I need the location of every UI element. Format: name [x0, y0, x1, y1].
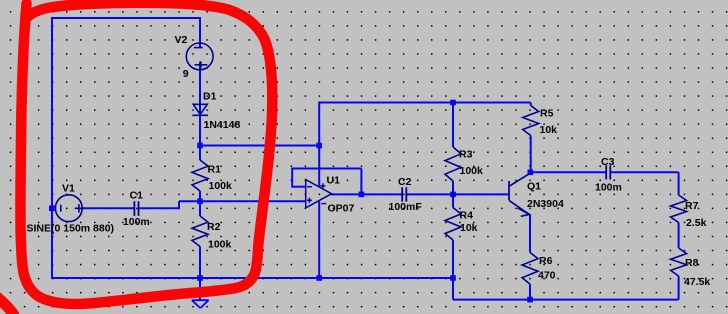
wire Q1 emitter to R6: [529, 215, 531, 253]
svg-text:R7: R7: [685, 200, 699, 212]
node junction J9: [450, 100, 456, 106]
svg-text:100m: 100m: [123, 216, 150, 228]
node junction J4 V1 left pin: [49, 206, 55, 212]
node junction J2: [197, 199, 203, 205]
resistor R8: [671, 248, 687, 276]
wire V2 bottom to D1 to R1 top: [199, 62, 201, 160]
svg-text:100k: 100k: [460, 165, 484, 177]
resistor R6: [522, 252, 538, 284]
node junction J12: [316, 275, 322, 281]
wire lower right rail y=299.6: [453, 299, 679, 301]
capacitor C1: [134, 201, 138, 216]
wire V2 top pin: [199, 18, 201, 48]
svg-text:V2: V2: [175, 34, 188, 46]
wire right vertical to R7: [678, 172, 680, 195]
resistor R3: [445, 147, 461, 181]
svg-text:470: 470: [538, 270, 556, 282]
node junction J7: [450, 192, 456, 198]
wire opamp V- riser x=319.2: [318, 201, 320, 279]
wire C1 to jog: [139, 207, 180, 209]
wire R6 bottom to J11: [529, 284, 531, 300]
svg-text:R8: R8: [685, 257, 699, 269]
wire C2 to J7: [406, 193, 453, 195]
svg-text:9: 9: [183, 68, 189, 80]
red marker corner stroke bottom-left: [0, 297, 14, 314]
svg-text:R1: R1: [208, 164, 222, 176]
wire feedback right vertical x=361.4: [360, 169, 362, 195]
svg-text:V1: V1: [62, 183, 75, 195]
red marker annotation loop: [20, 3, 272, 304]
voltage source V2: [186, 43, 213, 70]
svg-text:U1: U1: [327, 175, 341, 187]
diode D1: [192, 104, 208, 115]
wire R5 top stub: [530, 103, 532, 106]
wire R1 bottom to R2 top: [199, 191, 201, 216]
wire feedback inverting stub y=186.7: [292, 186, 306, 188]
wire Q1 base feed y=194.4: [453, 193, 509, 195]
svg-text:2N3904: 2N3904: [527, 198, 564, 210]
wire bottom rail y=278: [52, 277, 453, 279]
svg-text:R4: R4: [460, 210, 474, 222]
svg-text:10k: 10k: [540, 124, 558, 136]
node junction J8: [450, 275, 456, 281]
wire feedback left vertical x=292.2: [291, 169, 293, 188]
capacitor C3: [606, 165, 610, 179]
wire top horizontal y=18: [51, 17, 201, 19]
wire C3 to right corner: [611, 171, 679, 173]
node junction J11: [527, 297, 533, 303]
svg-text:R2: R2: [207, 221, 221, 233]
svg-text:100mF: 100mF: [389, 201, 423, 213]
wire R8 bottom to corner: [678, 276, 680, 300]
wire R7 to R8: [678, 223, 680, 249]
svg-text:C1: C1: [130, 190, 144, 202]
svg-text:10k: 10k: [460, 222, 478, 234]
svg-text:1N4148: 1N4148: [204, 119, 241, 131]
resistor R4: [445, 208, 461, 241]
svg-text:Q1: Q1: [527, 181, 541, 193]
wire R4 top stub: [452, 194, 454, 207]
ground: [192, 300, 209, 308]
resistor R5: [523, 106, 539, 136]
svg-text:R5: R5: [540, 108, 554, 120]
svg-text:2.5k: 2.5k: [686, 217, 707, 229]
wire feedback top y=168.5: [291, 168, 361, 170]
wire opamp output to C2: [331, 193, 402, 195]
resistor R2: [192, 216, 208, 247]
node junction J5: [316, 143, 322, 149]
wire R4 bottom through J8 down to lower rail: [452, 240, 454, 300]
svg-text:C3: C3: [601, 156, 615, 168]
node junction J1: [197, 143, 203, 149]
wire jog vertical x=179: [178, 201, 180, 208]
resistor R7: [671, 195, 687, 223]
svg-text:SINE(0 150m 880): SINE(0 150m 880): [27, 223, 115, 235]
op-amp U1: [306, 180, 332, 208]
node junction J10 Q1 collector: [528, 170, 534, 176]
svg-text:100k: 100k: [209, 180, 233, 192]
capacitor C2: [402, 187, 406, 201]
svg-text:OP07: OP07: [328, 203, 355, 215]
wire noninverting input run y=201.3: [179, 200, 306, 202]
svg-text:R6: R6: [539, 255, 553, 267]
wire J10 to C3 y=172.3: [531, 171, 606, 173]
transistor Q1: [509, 173, 530, 216]
svg-text:R3: R3: [459, 149, 473, 161]
node junction J6 opamp output: [359, 192, 365, 198]
voltage source V1: [55, 195, 83, 222]
wire top rail y=102.5: [319, 102, 531, 104]
svg-text:D1: D1: [203, 91, 217, 103]
wire V1 to C1: [82, 207, 134, 209]
wire R3 top stub: [452, 103, 454, 148]
wire R3 bottom to J7: [452, 181, 454, 194]
wire R2 bottom to ground: [199, 247, 201, 301]
wire R5 bottom to J10: [530, 136, 532, 174]
wire J1 to opamp V+ riser y=145.5: [200, 145, 319, 147]
svg-text:47.5k: 47.5k: [684, 276, 710, 288]
node junction J3: [197, 275, 203, 281]
svg-text:100m: 100m: [595, 182, 622, 194]
resistor R1: [192, 160, 208, 191]
wire left vertical x=52: [51, 17, 53, 279]
wire opamp V+ riser x=319.2: [318, 102, 320, 188]
svg-text:100k: 100k: [208, 239, 232, 251]
svg-text:C2: C2: [398, 176, 412, 188]
